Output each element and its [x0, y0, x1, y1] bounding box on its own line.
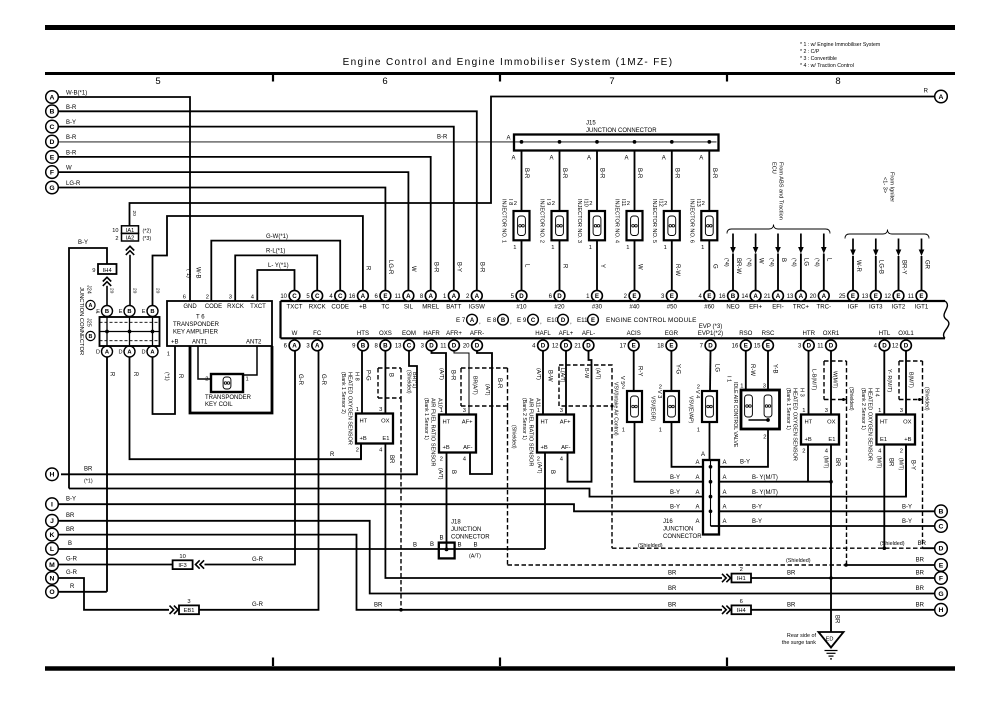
svg-text:C: C — [531, 318, 536, 324]
svg-text:A: A — [475, 293, 480, 300]
svg-text:A: A — [511, 156, 515, 162]
svg-text:6: 6 — [382, 76, 387, 87]
svg-text:B- Y(M/T): B- Y(M/T) — [752, 475, 778, 481]
svg-text:A: A — [723, 460, 727, 466]
svg-text:15: 15 — [754, 344, 761, 350]
page top border bar — [45, 25, 955, 30]
junction (shield to E bus) — [844, 563, 848, 567]
injector I10 INJECTOR NO. 3 — [576, 199, 605, 243]
terminal C (right) — [935, 520, 948, 533]
svg-text:IF3: IF3 — [178, 563, 186, 569]
wire J15 to injector no.3 — [596, 151, 598, 212]
svg-text:B-Y: B-Y — [66, 120, 76, 126]
J16 bus junction — [709, 509, 713, 513]
ECM pin HTL (4 D) — [874, 330, 891, 351]
svg-text:2: 2 — [440, 457, 443, 463]
svg-text:L: L — [50, 546, 54, 553]
svg-text:ANT1: ANT1 — [192, 340, 208, 346]
svg-text:AFL-: AFL- — [582, 330, 595, 337]
svg-text:R: R — [365, 266, 371, 271]
svg-text:18: 18 — [657, 344, 664, 350]
J24/J25 bottom pin A — [147, 346, 158, 357]
svg-text:W-R: W-R — [855, 260, 861, 273]
ECM pin HAFR (3 D) — [421, 330, 441, 351]
wire TXCT L-Y loop — [257, 270, 294, 301]
wire B-Y to IH4 — [69, 248, 107, 489]
svg-text:C: C — [292, 293, 297, 300]
svg-text:2: 2 — [627, 201, 630, 207]
connector IH1 — [732, 567, 752, 582]
svg-text:12: 12 — [884, 294, 891, 300]
svg-text:* 3 : Convertible: * 3 : Convertible — [800, 56, 837, 62]
ECM pin IGSW (2 A) — [466, 290, 485, 310]
svg-text:JUNCTION: JUNCTION — [663, 527, 693, 533]
svg-text:J16: J16 — [663, 519, 673, 525]
wire IH4 to terminal H — [751, 609, 934, 611]
svg-text:(M/T): (M/T) — [898, 458, 904, 471]
svg-text:+B: +B — [541, 445, 548, 451]
svg-text:A: A — [452, 293, 457, 300]
wire D B-R to J15 bus — [59, 141, 717, 143]
svg-text:E1: E1 — [828, 437, 835, 443]
svg-text:the surge tank: the surge tank — [782, 640, 816, 646]
wire C B-Y to ECM BATT — [59, 127, 454, 290]
wire J15 to injector no.6 — [708, 151, 710, 212]
J16 bus junction — [709, 465, 713, 469]
dashed box (A/T) around AFL wires — [559, 365, 612, 406]
wire ECM AFL+ to A11 AF+ — [565, 351, 567, 414]
wire ECM AFR- to A10 AF- — [470, 351, 492, 474]
svg-text:G-R: G-R — [252, 602, 264, 608]
ECM pin +B (16 A) — [349, 290, 369, 310]
shield dashed box (OXL1) — [899, 361, 923, 400]
grid rule top — [45, 72, 955, 75]
svg-text:E: E — [632, 293, 636, 300]
svg-text:EFI+: EFI+ — [749, 303, 762, 310]
junction J15 tap 2 — [558, 140, 562, 144]
svg-text:B-R: B-R — [673, 168, 679, 179]
svg-text:ANT2: ANT2 — [246, 340, 262, 346]
chevrons below IA2 — [126, 246, 134, 250]
wire CODE G-W loop — [211, 241, 340, 301]
svg-text:I10: I10 — [583, 199, 589, 207]
J24/J25 top pin B — [147, 306, 158, 317]
ECM pin AFL- (21 D) — [574, 330, 595, 351]
svg-text:H 4: H 4 — [874, 388, 880, 397]
svg-text:,: , — [479, 319, 481, 326]
svg-text:1: 1 — [537, 408, 540, 414]
junction J15 tap 5 — [670, 140, 674, 144]
svg-text:20: 20 — [132, 288, 138, 294]
solenoid V5 VSV (Intake Air Control) — [613, 376, 643, 436]
svg-text:,: , — [540, 319, 542, 326]
terminal N (left) — [46, 572, 59, 585]
terminal D (right) — [935, 542, 948, 555]
grid tick bottom 1 — [272, 658, 274, 667]
svg-text:2: 2 — [702, 201, 705, 207]
svg-text:AIR FUEL RATIO SENSOR: AIR FUEL RATIO SENSOR — [430, 398, 436, 466]
wire R branch to ECM +B — [153, 216, 363, 305]
ECM pin TXCT (10 C) — [280, 290, 302, 310]
svg-text:BR(A/T): BR(A/T) — [472, 376, 478, 395]
shield dashed A11 left — [507, 406, 509, 565]
svg-text:IH4: IH4 — [103, 268, 113, 274]
svg-text:B-R: B-R — [496, 378, 502, 389]
wire ECM RSO to IACV — [745, 351, 747, 390]
svg-text:E: E — [142, 309, 146, 315]
svg-text:6: 6 — [183, 295, 186, 301]
svg-text:#20: #20 — [554, 303, 565, 310]
sensor H8 HEATED OXYGEN SENSOR (Bank 1 Sensor 2) — [356, 407, 393, 454]
svg-text:A: A — [506, 136, 510, 142]
junction (shield corner) — [611, 405, 614, 408]
svg-text:D: D — [519, 293, 524, 300]
wire F W to ECM SIL — [59, 172, 408, 290]
shield dashed box (OXS wire) — [378, 368, 401, 398]
wire H3 E1 to ED ground (BR) — [830, 445, 832, 633]
svg-text:3: 3 — [900, 408, 903, 414]
svg-text:P-G: P-G — [365, 370, 371, 381]
svg-text:BR: BR — [388, 455, 394, 464]
svg-text:B-Y: B-Y — [752, 519, 762, 525]
terminal F (right) — [935, 572, 948, 585]
svg-text:BR: BR — [66, 527, 75, 533]
svg-text:BR-W: BR-W — [735, 258, 741, 274]
transponder key coil enclosure — [190, 346, 272, 413]
wire pin B into box — [152, 317, 154, 332]
svg-text:BR: BR — [834, 458, 840, 467]
svg-text:(*1): (*1) — [84, 479, 93, 485]
svg-text:W: W — [66, 166, 72, 172]
svg-text:E: E — [744, 343, 748, 350]
svg-text:D: D — [882, 343, 887, 350]
ECM pin IGT1 (11 E) — [908, 290, 929, 310]
svg-text:#30: #30 — [592, 303, 603, 310]
svg-text:1: 1 — [513, 245, 516, 251]
svg-text:BR: BR — [787, 602, 796, 608]
svg-text:10: 10 — [179, 554, 185, 560]
terminal J (left) — [46, 515, 59, 528]
arrow from igniter to IGT3 — [875, 239, 877, 251]
svg-text:IGT2: IGT2 — [892, 303, 906, 310]
svg-text:BR: BR — [84, 467, 93, 473]
wire ECM HTS to H8 HT — [361, 351, 363, 413]
amplifier T6 TRANSPONDER KEY AMPLIFIER box — [167, 301, 272, 346]
svg-text:KEY AMPLIFIER: KEY AMPLIFIER — [173, 330, 219, 336]
svg-text:GND: GND — [183, 304, 197, 310]
svg-text:D: D — [586, 343, 591, 350]
svg-text:2: 2 — [514, 201, 517, 207]
svg-text:B-Y: B-Y — [752, 505, 762, 511]
svg-text:B: B — [549, 470, 555, 474]
svg-text:JUNCTION CONNECTOR: JUNCTION CONNECTOR — [586, 128, 657, 134]
svg-text:(Bank 1 Sensor 2): (Bank 1 Sensor 2) — [340, 372, 346, 414]
svg-text:VSV(Intake Air Control): VSV(Intake Air Control) — [613, 382, 619, 436]
J24/J25 bus junction — [151, 330, 155, 334]
svg-text:8: 8 — [835, 76, 840, 87]
junction (F bus tap) — [829, 576, 833, 580]
wire H4 E1 to D bus (BR) — [883, 445, 885, 549]
transponder key coil — [211, 374, 243, 392]
wire J16 row3 to H4 +B — [719, 444, 906, 497]
svg-text:RXCK: RXCK — [309, 303, 326, 310]
svg-text:AF-: AF- — [463, 445, 472, 451]
wire ECM AFR+ to A10 AF+ — [454, 351, 469, 414]
ECM pin HTR (3 D) — [798, 330, 816, 351]
svg-text:R-L(*1): R-L(*1) — [266, 249, 285, 255]
svg-text:F: F — [939, 575, 943, 582]
svg-text:A: A — [695, 490, 699, 496]
chevrons (IF3) — [196, 560, 200, 568]
svg-text:11: 11 — [440, 344, 447, 350]
svg-text:W(M/T): W(M/T) — [832, 371, 838, 389]
ECM pin IGT3 (13 E) — [862, 290, 884, 310]
svg-text:3: 3 — [187, 599, 190, 605]
svg-text:J25: J25 — [86, 318, 92, 327]
svg-text:A: A — [799, 293, 804, 300]
svg-text:1: 1 — [551, 245, 554, 251]
wire J16 row4 to terminal B — [719, 510, 934, 512]
svg-text:B-R: B-R — [66, 105, 77, 111]
chevrons (IH4 right) — [722, 606, 726, 614]
svg-text:LG: LG — [714, 364, 720, 372]
injector I 9 INJECTOR NO. 2 — [539, 199, 568, 243]
wire IH1 to terminal F — [751, 577, 934, 579]
junction J15 tap 6 — [707, 140, 711, 144]
svg-text:E: E — [896, 293, 900, 300]
svg-text:I 9: I 9 — [545, 199, 551, 205]
svg-text:11: 11 — [395, 294, 402, 300]
svg-text:B-Y: B-Y — [670, 505, 680, 511]
ECM pin AFL+ (12 D) — [552, 330, 574, 351]
svg-text:Y-G: Y-G — [675, 364, 681, 374]
ECM pin AFR+ (11 D) — [440, 330, 462, 351]
svg-text:BR-Y: BR-Y — [900, 260, 906, 274]
svg-text:12: 12 — [552, 344, 559, 350]
svg-text:AFL+: AFL+ — [559, 330, 574, 337]
svg-text:E 9: E 9 — [517, 317, 527, 324]
svg-text:D: D — [429, 343, 434, 350]
svg-text:BR: BR — [918, 541, 927, 547]
svg-text:(A/T): (A/T) — [438, 368, 444, 380]
wire J15 to injector no.4 — [634, 151, 636, 212]
svg-text:INJECTOR NO. 1: INJECTOR NO. 1 — [501, 199, 507, 243]
wire ANT1 to key coil — [198, 346, 211, 379]
wire ECM EGR to V3 — [670, 351, 672, 391]
svg-text:LG-B: LG-B — [878, 260, 884, 274]
shield bus D (dashed) to terminal D — [612, 547, 923, 549]
ECM pin #30 (1 E) — [586, 290, 603, 310]
svg-text:W-B(*1): W-B(*1) — [66, 91, 87, 97]
svg-text:Engine Control and Engine Immo: Engine Control and Engine Immobiliser Sy… — [343, 57, 674, 68]
svg-text:AF-: AF- — [561, 445, 570, 451]
svg-text:1: 1 — [167, 352, 170, 358]
svg-text:CODE: CODE — [331, 303, 349, 310]
wire IACV pin2 to J16 row1 — [719, 429, 768, 467]
svg-text:IGF: IGF — [848, 303, 858, 310]
svg-text:B: B — [440, 536, 444, 542]
junction J15 tap 1 — [520, 140, 524, 144]
svg-text:G-R: G-R — [297, 374, 303, 386]
ECM pin TRC+ (13 A) — [787, 290, 810, 310]
injector I11 INJECTOR NO. 4 — [614, 199, 643, 243]
notes legend — [800, 42, 880, 69]
svg-text:INJECTOR NO. 3: INJECTOR NO. 3 — [576, 199, 582, 243]
junction (shield corner) — [918, 398, 921, 401]
svg-text:D: D — [939, 546, 944, 553]
wire B B-R to ECM IGSW — [59, 111, 477, 290]
terminal H (right) — [935, 604, 948, 617]
svg-text:HT: HT — [880, 420, 888, 426]
svg-text:A: A — [361, 293, 366, 300]
svg-text:13: 13 — [787, 294, 794, 300]
svg-text:B-Y: B-Y — [902, 505, 912, 511]
ECM pin RXCK (5 C) — [306, 290, 325, 310]
svg-text:AF+: AF+ — [462, 420, 473, 426]
svg-text:3: 3 — [463, 408, 466, 414]
svg-text:B-R: B-R — [66, 135, 77, 141]
wire to ECM IGT3 — [875, 256, 877, 290]
svg-text:OX: OX — [903, 420, 912, 426]
svg-text:EB1: EB1 — [184, 608, 195, 614]
svg-text:1: 1 — [697, 428, 700, 434]
svg-text:Rear side of: Rear side of — [787, 633, 817, 639]
svg-text:A: A — [699, 156, 703, 162]
svg-text:+B: +B — [360, 436, 367, 442]
svg-text:G: G — [711, 264, 717, 269]
svg-text:(*4): (*4) — [814, 258, 820, 267]
wire J24 to H8 +B (R) — [130, 357, 362, 459]
svg-text:1: 1 — [356, 407, 359, 413]
svg-text:V 5: V 5 — [619, 376, 625, 384]
wire J15 to injector no.1 — [521, 151, 523, 212]
svg-text:BR: BR — [916, 558, 925, 564]
svg-text:B: B — [430, 542, 434, 548]
svg-text:5: 5 — [155, 76, 160, 87]
svg-text:(*3): (*3) — [143, 236, 152, 242]
wire RXCK R-L loop — [235, 255, 317, 301]
svg-text:RXCK: RXCK — [227, 304, 244, 310]
svg-text:(Bank 2 Sensor 1): (Bank 2 Sensor 1) — [521, 398, 527, 440]
svg-text:ECU: ECU — [771, 162, 777, 174]
J24/J25 bus junction — [105, 330, 109, 334]
svg-text:B-R: B-R — [561, 168, 567, 179]
svg-text:EVP1(*2): EVP1(*2) — [698, 330, 723, 337]
svg-text:INJECTOR NO. 5: INJECTOR NO. 5 — [651, 199, 657, 243]
wire injector 6 to ECM — [708, 240, 710, 290]
J24/J25 inner dashed lines — [100, 321, 160, 323]
wire to ECM IGF — [852, 256, 854, 290]
svg-text:E: E — [591, 318, 595, 324]
svg-text:B: B — [89, 334, 93, 340]
ground symbol — [825, 650, 838, 652]
J24/J25 bus junction — [128, 330, 132, 334]
shield drain dashed to E bus — [846, 400, 848, 566]
wire G LG-R to ECM TC — [59, 188, 385, 290]
svg-text:A: A — [776, 293, 781, 300]
svg-text:+B: +B — [904, 437, 911, 443]
svg-text:E 7: E 7 — [456, 317, 466, 324]
ECM pin FC (3 A) — [306, 330, 322, 351]
svg-text:TRC-: TRC- — [817, 303, 832, 310]
wire injector 1 to ECM — [521, 240, 523, 290]
svg-text:KEY COIL: KEY COIL — [205, 402, 233, 408]
svg-text:EGR: EGR — [665, 330, 679, 337]
svg-text:(M/T): (M/T) — [876, 456, 882, 469]
svg-text:B: B — [780, 258, 786, 262]
svg-text:#50: #50 — [667, 303, 678, 310]
svg-text:E: E — [874, 293, 878, 300]
svg-text:C: C — [315, 293, 320, 300]
grid tick top 2 — [499, 74, 501, 82]
svg-text:A: A — [822, 293, 827, 300]
wire T6 +B to J24 connector — [153, 346, 176, 414]
svg-text:J: J — [50, 518, 54, 525]
svg-text:TRC+: TRC+ — [793, 303, 810, 310]
svg-text:IDLE AIR CONTROL VALVE: IDLE AIR CONTROL VALVE — [732, 382, 738, 448]
svg-text:BR: BR — [668, 586, 677, 592]
svg-text:A: A — [50, 94, 55, 101]
svg-text:(A/T): (A/T) — [535, 368, 541, 380]
shield drain dashed to H bus — [400, 398, 402, 610]
ECM pin #60 (4 E) — [698, 290, 715, 310]
svg-text:L- Y(*1): L- Y(*1) — [268, 263, 289, 269]
ECM pin #40 (2 E) — [624, 290, 641, 310]
J24/J25 box — [100, 317, 160, 346]
wire H8 E1 to F bus (BR) — [385, 444, 722, 579]
svg-text:(Shielded): (Shielded) — [786, 558, 811, 564]
svg-text:14: 14 — [741, 294, 748, 300]
J24/J25 bus line — [100, 331, 160, 333]
svg-text:HAFR: HAFR — [423, 330, 440, 337]
svg-text:2: 2 — [900, 449, 903, 455]
svg-text:E: E — [919, 293, 923, 300]
svg-text:10: 10 — [280, 294, 287, 300]
svg-text:R: R — [109, 372, 115, 377]
terminal L (left) — [46, 543, 59, 556]
connector IA2 — [122, 233, 139, 241]
svg-text:C: C — [338, 293, 343, 300]
svg-text:W-B: W-B — [195, 267, 201, 279]
wire ECM HAFL to A11 HT — [542, 351, 544, 414]
svg-text:HEATED OXYGEN SENSOR: HEATED OXYGEN SENSOR — [347, 372, 353, 445]
wire A W-B to T6 GND — [59, 97, 190, 301]
svg-text:H 3: H 3 — [799, 388, 805, 397]
ECM pin HAFL (4 D) — [532, 330, 551, 351]
wire J15 to injector no.2 — [559, 151, 561, 212]
ECM pin IGF (25 E) — [839, 290, 859, 310]
svg-text:10: 10 — [112, 228, 118, 234]
ECM identification row E7-E11 — [456, 314, 598, 325]
valve I1 IDLE AIR CONTROL VALVE — [726, 376, 780, 448]
wire H3 +B up corner — [807, 445, 809, 482]
svg-text:A: A — [753, 293, 758, 300]
svg-text:I12: I12 — [657, 199, 663, 207]
svg-text:2: 2 — [763, 435, 766, 441]
svg-text:H: H — [50, 472, 55, 479]
svg-text:B-Y: B-Y — [78, 240, 88, 246]
svg-text:2: 2 — [740, 567, 743, 573]
svg-text:EOM: EOM — [402, 330, 416, 337]
svg-text:* 4 : w/ Traction Control: * 4 : w/ Traction Control — [800, 63, 854, 69]
ECM pin #20 (6 D) — [549, 290, 566, 310]
svg-text:HTR: HTR — [803, 330, 816, 337]
wire ECM OXL1 to H4 OX — [905, 351, 907, 414]
ECM pin MREL (8 A) — [420, 290, 440, 310]
terminal H (left) — [46, 468, 59, 481]
svg-text:E: E — [383, 293, 387, 300]
svg-text:R: R — [330, 452, 335, 458]
